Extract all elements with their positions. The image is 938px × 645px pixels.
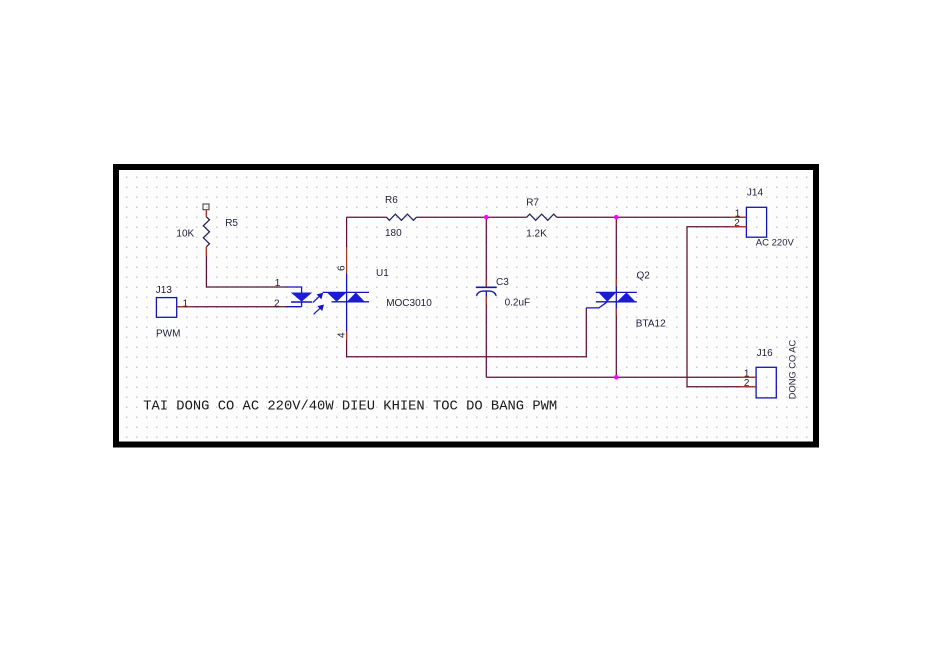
resistor R6 — [386, 214, 416, 220]
svg-text:PWM: PWM — [156, 329, 180, 340]
wire top main segment B — [417, 216, 527, 218]
svg-text:MOC3010: MOC3010 — [386, 298, 432, 309]
svg-text:1: 1 — [275, 278, 281, 289]
Q2 right triangle — [617, 292, 636, 301]
junction node R6/C3 — [484, 215, 489, 220]
svg-text:R6: R6 — [385, 195, 398, 206]
svg-text:U1: U1 — [376, 268, 389, 279]
op-amp U1 optocoupler symbol — [286, 274, 370, 332]
svg-text:BTA12: BTA12 — [636, 318, 666, 329]
U1 LED pin2 stub — [286, 306, 302, 308]
junction node Q2/bottom wire — [614, 375, 619, 380]
wire top main segment C to J14 pin1 — [557, 216, 747, 218]
svg-text:J14: J14 — [747, 187, 764, 198]
junction node R7/Q2 — [614, 215, 619, 220]
connector J13 — [156, 298, 176, 318]
Q2 top rail — [596, 291, 637, 293]
wire C3 top vertical — [485, 217, 487, 286]
connector J14 — [746, 207, 766, 237]
pin hot U1.6 — [346, 247, 348, 274]
wire bottom main to J16 pin1 — [486, 376, 756, 378]
pin hot Q2 top — [615, 279, 617, 286]
U1 triac through + bottom stub — [346, 292, 348, 331]
Q2 gate lead — [586, 302, 607, 308]
wire R5 bottom to elbow — [206, 247, 285, 287]
pin hot C3 bottom — [485, 297, 487, 305]
schematic sheet background with grid — [119, 170, 813, 441]
pin hot R5 top — [205, 210, 207, 217]
no-connect square R5 top — [203, 204, 209, 210]
svg-text:2: 2 — [734, 218, 740, 229]
resistor R5 — [203, 217, 209, 247]
pin hot C3 top — [485, 280, 487, 287]
pin stub J13.1 — [177, 306, 190, 308]
svg-text:J13: J13 — [156, 285, 173, 296]
svg-text:1: 1 — [183, 298, 189, 309]
wire Q2 bottom vertical — [615, 309, 617, 378]
pin stub J16.2 — [740, 386, 756, 388]
svg-text:180: 180 — [385, 228, 402, 239]
wire U1 pin6 vertical — [346, 217, 348, 247]
wire R5 top stub — [205, 210, 207, 217]
wire J13 pin1 to U1 pin2 — [177, 306, 286, 308]
svg-text:DONG CO AC: DONG CO AC — [788, 340, 798, 400]
U1 emission arrow 1 — [313, 293, 324, 315]
connector J16 — [756, 367, 776, 398]
U1 triac bottom rail — [332, 301, 370, 303]
U1 emission arrow 2 — [314, 307, 322, 314]
U1 LED cathode bar — [291, 301, 312, 303]
pin hot Q2 bottom — [615, 309, 617, 316]
pin stub J14.2 — [731, 226, 747, 228]
C3 top plate — [476, 286, 497, 288]
U1 LED triangle — [291, 293, 312, 302]
border frame — [116, 167, 816, 445]
svg-text:2: 2 — [744, 378, 750, 389]
svg-text:Q2: Q2 — [637, 271, 651, 282]
svg-text:C3: C3 — [496, 277, 509, 288]
wire C3 bottom vertical — [485, 297, 487, 378]
svg-text:2: 2 — [274, 298, 280, 309]
Q2 through + bottom stub — [615, 292, 617, 308]
resistor R7 — [527, 214, 557, 220]
svg-text:6: 6 — [336, 265, 347, 271]
wire U1 pin4 to Q2 gate — [347, 308, 587, 357]
pin hot R5 bottom — [205, 247, 207, 257]
U1 LED pin elbow — [286, 287, 302, 307]
svg-text:R5: R5 — [225, 218, 238, 229]
U1 triac left triangle — [327, 292, 347, 301]
U1 triac top stub — [346, 274, 348, 293]
pin stub J14.1 — [731, 216, 747, 218]
Q2 left triangle — [598, 292, 616, 301]
pin stub J16.1 — [740, 376, 756, 378]
Q2 bottom rail — [596, 301, 637, 303]
svg-text:1.2K: 1.2K — [526, 229, 547, 240]
pin hot U1.4 — [346, 332, 348, 340]
Q2 top stub — [615, 286, 617, 293]
U1 triac top rail — [323, 291, 369, 293]
svg-text:AC 220V: AC 220V — [756, 238, 795, 249]
capacitor C3 — [476, 287, 497, 297]
wire top main segment A — [347, 216, 387, 218]
wire Q2 top vertical — [615, 217, 617, 286]
svg-text:TAI DONG CO AC 220V/40W DIEU K: TAI DONG CO AC 220V/40W DIEU KHIEN TOC D… — [143, 398, 557, 414]
transistor Q2 triac — [586, 286, 637, 309]
svg-text:R7: R7 — [526, 198, 539, 209]
svg-text:4: 4 — [336, 332, 347, 338]
svg-text:0.2uF: 0.2uF — [505, 297, 531, 308]
wire J14 pin2 to J16 pin2 — [687, 227, 756, 387]
C3 center stub — [485, 291, 487, 297]
svg-text:J16: J16 — [757, 348, 774, 359]
svg-text:10K: 10K — [176, 229, 194, 240]
C3 bottom curved plate — [476, 291, 496, 296]
U1 triac right triangle — [347, 292, 365, 301]
